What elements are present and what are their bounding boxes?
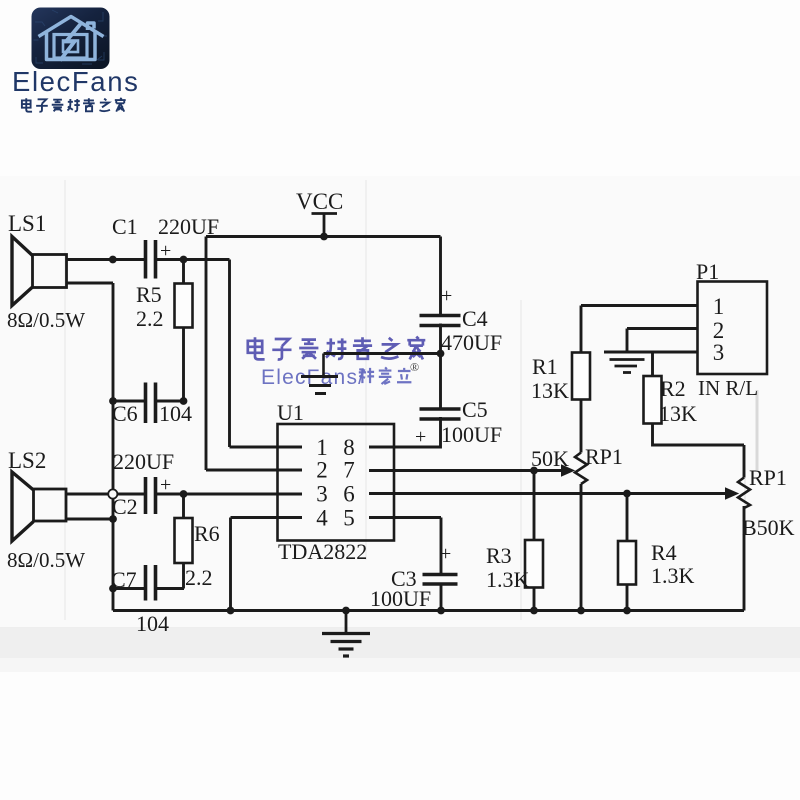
junction R4 top node: [623, 490, 631, 498]
resistor R2: [644, 376, 662, 424]
svg-text:2: 2: [316, 458, 328, 483]
svg-text:C4: C4: [462, 306, 488, 331]
logo subtitle 电子爱好者之家: [22, 98, 126, 112]
svg-text:13K: 13K: [659, 401, 697, 426]
wire pin2 left vertical: [205, 237, 208, 471]
wire pin6 to RP2 wiper: [369, 492, 727, 495]
svg-text:3: 3: [713, 340, 725, 365]
resistor R5: [175, 284, 193, 328]
wire R4 branch vertical: [626, 494, 629, 542]
junction C3 rail node: [437, 607, 445, 615]
svg-text:VCC: VCC: [296, 189, 343, 214]
wire C7 right to R6: [157, 587, 185, 590]
svg-text:®: ®: [410, 360, 419, 374]
wire RP2 bottom lead: [743, 506, 746, 611]
ground near C4: [301, 354, 338, 394]
svg-text:LS1: LS1: [8, 211, 46, 236]
svg-text:LS2: LS2: [8, 448, 46, 473]
svg-text:1.3K: 1.3K: [651, 563, 695, 588]
svg-text:R2: R2: [660, 376, 686, 401]
svg-text:IN R/L: IN R/L: [698, 376, 758, 400]
svg-text:220UF: 220UF: [158, 214, 219, 239]
svg-text:TDA2822: TDA2822: [278, 539, 367, 564]
capacitor C7: [146, 565, 156, 601]
potentiometer RP1 wiper arrow: [561, 464, 575, 477]
wire C2 to pin3: [157, 493, 303, 496]
junction C6 left node: [109, 397, 117, 405]
junction C1 R5 node: [180, 256, 188, 264]
potentiometer RP2 wiper arrow: [725, 487, 739, 500]
svg-text:1: 1: [713, 294, 725, 319]
wire C1 to pin1 vertical: [157, 260, 230, 448]
wire R5 bottom lead: [182, 328, 185, 402]
power VCC symbol: [312, 214, 338, 237]
junction R4 rail node: [623, 607, 631, 615]
wire P1 pin3 ground bar: [604, 351, 698, 354]
resistor R6: [175, 518, 193, 563]
svg-text:8Ω/0.5W: 8Ω/0.5W: [7, 548, 85, 572]
svg-text:R5: R5: [136, 282, 162, 307]
junction C6 R5 node: [180, 397, 188, 405]
wire R2 top lead: [651, 352, 654, 376]
potentiometer RP2 element: [738, 478, 750, 509]
wire C6 right to R5: [157, 400, 184, 403]
wire R5 top lead: [182, 260, 185, 284]
svg-text:+: +: [160, 474, 171, 496]
capacitor C4: [420, 316, 461, 326]
svg-text:C7: C7: [111, 567, 137, 592]
wire VCC rail to C4: [439, 237, 442, 315]
speaker LS2: [12, 472, 66, 541]
svg-text:U1: U1: [277, 400, 304, 425]
potentiometer RP1 element: [575, 453, 587, 485]
svg-text:+: +: [441, 285, 452, 307]
svg-text:4: 4: [316, 506, 328, 531]
junction R3 rail node: [530, 607, 538, 615]
svg-text:1: 1: [316, 435, 328, 460]
wire RP1 bottom lead: [580, 484, 583, 611]
junction VCC rail: [320, 233, 328, 241]
svg-text:R6: R6: [194, 521, 220, 546]
svg-text:100UF: 100UF: [370, 586, 431, 611]
svg-text:13K: 13K: [531, 378, 569, 403]
wire R1 bottom to RP1: [580, 400, 583, 453]
wire P1 pin2 to ground: [627, 329, 698, 353]
svg-text:R1: R1: [532, 354, 558, 379]
watermark 电子爱好者之家: [248, 337, 425, 360]
capacitor C6: [146, 383, 156, 424]
junction RP1 rail node: [577, 607, 585, 615]
wire pin5 to C3: [369, 518, 441, 575]
capacitor C1: [146, 240, 156, 279]
wire C3 bottom lead: [440, 584, 443, 611]
ground main bottom: [322, 611, 370, 657]
svg-text:5: 5: [343, 506, 355, 531]
wire R2 to RP2: [653, 424, 745, 478]
svg-text:+: +: [415, 426, 426, 448]
wire R4 bottom lead: [626, 585, 629, 611]
svg-text:8: 8: [343, 435, 355, 460]
svg-text:470UF: 470UF: [441, 330, 502, 355]
connector P1 box: [698, 282, 768, 375]
op-amp U1 TDA2822 box: [278, 424, 395, 541]
svg-text:B50K: B50K: [742, 515, 795, 540]
ElecFans logo mark: [32, 8, 110, 70]
wire pin4 stub: [231, 518, 303, 611]
capacitor C5: [420, 409, 461, 419]
speaker LS1: [12, 237, 67, 306]
svg-text:104: 104: [136, 611, 169, 636]
junction ground rail node: [342, 607, 350, 615]
junction pin4 rail node: [227, 607, 235, 615]
svg-text:+: +: [160, 240, 171, 262]
watermark ElecFans/科彦立: [261, 360, 419, 389]
wire C5 to pin8: [369, 417, 441, 447]
wire R6 top lead: [182, 494, 185, 518]
wire VCC top rail: [206, 235, 441, 238]
wire C7 left: [113, 587, 144, 590]
svg-text:RP1: RP1: [749, 465, 787, 490]
svg-text:50K: 50K: [531, 446, 569, 471]
capacitor C3: [423, 575, 458, 585]
wire R6 bottom lead: [182, 563, 185, 589]
wire pin2 stub: [206, 469, 302, 472]
wire left bus vertical: [112, 283, 115, 611]
capacitor C2: [146, 477, 156, 514]
svg-text:1.3K: 1.3K: [486, 567, 530, 592]
svg-text:2.2: 2.2: [185, 565, 213, 590]
svg-text:6: 6: [343, 482, 355, 507]
wire C4 to C5: [439, 324, 442, 408]
svg-text:2.2: 2.2: [136, 306, 164, 331]
svg-text:C5: C5: [462, 397, 488, 422]
svg-text:8Ω/0.5W: 8Ω/0.5W: [7, 308, 85, 332]
svg-text:3: 3: [316, 482, 328, 507]
svg-text:C1: C1: [112, 214, 138, 239]
svg-text:R4: R4: [651, 540, 677, 565]
wire ground bottom rail: [113, 609, 744, 612]
wire P1 pin1 to R1: [581, 306, 698, 353]
wire R3 bottom lead: [533, 588, 536, 611]
svg-text:C2: C2: [112, 494, 138, 519]
junction C4 ground node: [437, 350, 445, 358]
wire R3 branch vertical: [533, 471, 536, 541]
wire pin7 to RP1 wiper: [369, 469, 563, 472]
node LS2 crossing terminal: [108, 489, 117, 498]
wire pin1 stub: [230, 446, 303, 449]
svg-text:7: 7: [343, 458, 355, 483]
ground near P1: [610, 360, 645, 373]
resistor R1: [572, 353, 590, 400]
svg-text:ElecFans: ElecFans: [12, 66, 139, 97]
wire LS2 bottom: [66, 518, 113, 521]
svg-text:P1: P1: [696, 259, 719, 284]
svg-text:220UF: 220UF: [113, 449, 174, 474]
wire C6 left: [113, 400, 144, 403]
junction C7 left node: [109, 585, 117, 593]
svg-text:RP1: RP1: [585, 444, 623, 469]
wire C4 ground branch: [324, 352, 441, 355]
resistor R3: [525, 540, 543, 588]
svg-text:R3: R3: [486, 543, 512, 568]
svg-text:C6: C6: [112, 401, 138, 426]
svg-text:100UF: 100UF: [441, 422, 502, 447]
wire LS1 top to C1: [67, 258, 145, 261]
svg-text:104: 104: [159, 401, 192, 426]
junction LS2 bottom node: [109, 515, 117, 523]
svg-text:+: +: [440, 543, 451, 565]
junction C2 R6 node: [180, 490, 188, 498]
wire LS1 bottom: [67, 282, 114, 285]
resistor R4: [618, 541, 636, 585]
wire LS2 top to C2: [66, 493, 144, 496]
junction LS1 top wire: [109, 256, 117, 264]
junction R3 top node: [530, 467, 538, 475]
